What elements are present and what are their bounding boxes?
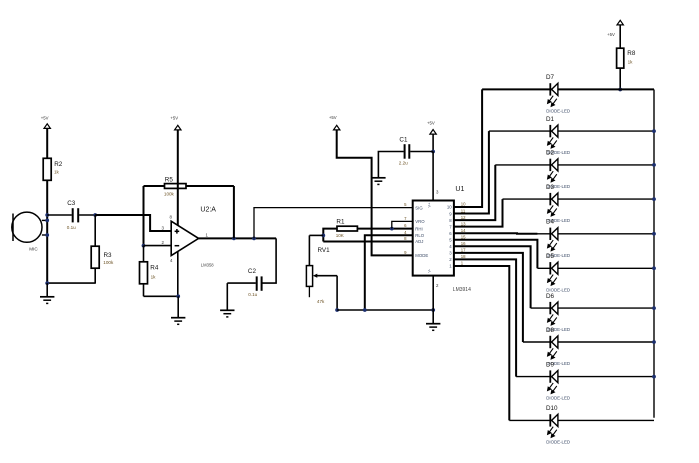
svg-text:DIODE-LED: DIODE-LED xyxy=(546,287,570,292)
wire V+ to chip xyxy=(432,152,434,201)
wire LED row D9 xyxy=(516,376,654,378)
wire pin 15 to LED row 6 xyxy=(454,240,538,269)
wire feedback left vertical xyxy=(143,186,145,246)
ground LM3914 xyxy=(426,323,440,325)
svg-text:D5: D5 xyxy=(546,253,555,260)
node VRO/RHI junction xyxy=(390,227,394,231)
node feedback junction xyxy=(232,237,236,241)
wire LED row D2 xyxy=(495,164,654,166)
LED D8 xyxy=(552,336,558,348)
wire R1 left lead xyxy=(323,229,337,242)
svg-text:C2: C2 xyxy=(248,268,257,275)
wire output down to C2 xyxy=(263,238,277,283)
capacitor C1 xyxy=(404,144,406,159)
wire pin 11 to LED row 2 xyxy=(454,131,489,213)
wire pin 13 to LED row 4 xyxy=(454,199,503,227)
svg-text:+5V: +5V xyxy=(170,115,178,120)
wire +5V to C1 node xyxy=(432,134,434,151)
svg-text:47k: 47k xyxy=(317,299,325,304)
power +5V for LM3914 V+ xyxy=(430,130,436,135)
node chip ground junction xyxy=(431,308,435,312)
wire LED row D1 xyxy=(489,130,654,132)
wire pin 14 to LED row 5 xyxy=(454,232,538,235)
node signal tap junction xyxy=(252,237,256,241)
svg-text:RLO: RLO xyxy=(415,233,424,238)
wire C3 right lead xyxy=(79,214,95,216)
svg-text:D8: D8 xyxy=(546,327,555,334)
LED D1 xyxy=(552,125,558,137)
ground mic xyxy=(40,296,54,298)
wire pin 10 to LED row 1 xyxy=(454,89,482,207)
op-amp U2:A xyxy=(171,221,198,255)
svg-text:R8: R8 xyxy=(627,50,636,57)
svg-text:11: 11 xyxy=(461,208,466,213)
resistor R1 xyxy=(337,226,357,231)
svg-text:1k: 1k xyxy=(628,60,634,65)
wire LED row D5 xyxy=(537,267,654,269)
svg-text:U2:A: U2:A xyxy=(200,207,216,214)
svg-text:LM358: LM358 xyxy=(201,263,214,268)
node rail junction row 7 xyxy=(652,306,656,310)
svg-text:16: 16 xyxy=(461,241,466,246)
svg-text:2.2u: 2.2u xyxy=(399,160,408,165)
svg-text:1k: 1k xyxy=(151,274,157,279)
power +5V for MODE xyxy=(334,125,340,130)
LED D9 xyxy=(552,371,558,383)
resistor R4 xyxy=(143,246,145,262)
svg-text:C1: C1 xyxy=(399,137,408,144)
wire R3 top lead xyxy=(94,215,96,246)
node ground rail junction xyxy=(45,281,49,285)
wire ground stem xyxy=(46,283,48,297)
node rail junction row 6 xyxy=(652,266,656,270)
svg-text:C3: C3 xyxy=(67,200,76,207)
wire C2 left lead xyxy=(227,282,256,284)
wire RLO to ground rail xyxy=(365,235,413,310)
node rail junction row 4 xyxy=(652,197,656,201)
capacitor C3 xyxy=(72,208,74,222)
svg-text:18: 18 xyxy=(461,254,466,259)
svg-text:MODE: MODE xyxy=(415,253,428,258)
svg-text:SIG: SIG xyxy=(415,205,423,210)
wire +5V to R2 xyxy=(46,128,48,158)
node C1/V+ junction xyxy=(431,150,435,154)
ground op-amp xyxy=(171,317,185,319)
wire C1 left lead to ground xyxy=(378,152,403,178)
svg-text:D10: D10 xyxy=(546,405,558,412)
wire LED row D8 xyxy=(523,341,654,343)
svg-text:10: 10 xyxy=(461,202,466,207)
svg-text:17: 17 xyxy=(461,248,466,253)
node C3/R2/mic junction xyxy=(45,213,49,217)
svg-text:+5V: +5V xyxy=(607,32,615,37)
svg-text:0.1u: 0.1u xyxy=(67,225,76,230)
wire +5V to R8 xyxy=(619,25,621,48)
wire pin 16 to LED row 7 xyxy=(454,246,531,308)
node op-amp ground junction xyxy=(176,294,180,298)
svg-text:15: 15 xyxy=(461,234,466,239)
LED D10 xyxy=(552,414,558,426)
wire R5 right lead xyxy=(186,185,234,187)
wire pin 17 to LED row 8 xyxy=(454,253,523,342)
svg-text:RHI: RHI xyxy=(415,226,422,231)
svg-text:12: 12 xyxy=(461,215,466,220)
resistor R2 xyxy=(43,158,51,180)
node inverting input junction xyxy=(142,244,146,248)
IC U1 LM3914 body xyxy=(413,201,454,276)
LED D3 xyxy=(552,193,558,205)
svg-text:D4: D4 xyxy=(546,219,555,226)
svg-text:DIODE-LED: DIODE-LED xyxy=(546,439,570,444)
wire LED row D6 xyxy=(531,307,654,309)
svg-text:DIODE-LED: DIODE-LED xyxy=(546,108,570,113)
ground C2 xyxy=(220,309,234,311)
wire RV1 wiper down xyxy=(336,276,338,310)
wire pin 12 to LED row 3 xyxy=(454,165,495,220)
wire chip ground stem xyxy=(432,310,434,324)
svg-text:100k: 100k xyxy=(164,191,175,196)
node rail junction row 9 xyxy=(652,375,656,379)
wire R3 bottom lead xyxy=(94,268,96,283)
wire R5 left lead xyxy=(144,185,165,187)
svg-text:D1: D1 xyxy=(546,116,555,123)
svg-text:100k: 100k xyxy=(103,260,114,265)
svg-text:D2: D2 xyxy=(546,150,555,157)
svg-text:ADJ: ADJ xyxy=(415,239,423,244)
wire LED row D4 xyxy=(517,233,654,235)
wire bottom ground rail xyxy=(337,309,433,311)
svg-text:R2: R2 xyxy=(54,161,63,168)
svg-text:+5V: +5V xyxy=(41,116,49,121)
svg-text:LM3914: LM3914 xyxy=(453,287,471,293)
svg-text:D3: D3 xyxy=(546,184,555,191)
svg-text:V-: V- xyxy=(427,268,432,272)
power +5V for R8 xyxy=(617,20,623,25)
wire ground stem op-amp xyxy=(177,296,179,317)
wire R1 right to RHI xyxy=(357,228,412,230)
node C3/R3 junction xyxy=(93,213,97,217)
svg-text:R3: R3 xyxy=(104,252,113,259)
wire signal to op-amp xyxy=(95,215,171,231)
node wiper/rail junction xyxy=(335,308,339,312)
wire right anode rail xyxy=(653,90,655,418)
svg-text:0.1u: 0.1u xyxy=(248,292,257,297)
svg-text:D6: D6 xyxy=(546,293,555,300)
wire VRO jog xyxy=(392,221,413,228)
svg-text:+5V: +5V xyxy=(427,121,435,126)
svg-text:D9: D9 xyxy=(546,361,555,368)
wire R2 to mic/C3 node xyxy=(46,180,48,283)
LED D2 xyxy=(552,159,558,171)
microphone MIC xyxy=(12,212,42,242)
wire signal to LM3914 SIG xyxy=(254,208,413,239)
wire LED row D7 xyxy=(482,88,654,90)
node mic pin2 xyxy=(45,233,49,237)
wire pin 1 to LED row 10 xyxy=(454,266,509,420)
LED D7 xyxy=(552,83,558,95)
svg-text:D7: D7 xyxy=(546,74,555,81)
resistor R3 xyxy=(91,246,99,268)
svg-text:U1: U1 xyxy=(455,186,464,193)
svg-text:R5: R5 xyxy=(165,177,174,184)
power +5V for R2 xyxy=(44,124,50,129)
wire ADJ to chip xyxy=(323,241,412,243)
ground C1 xyxy=(371,177,385,179)
wire op-amp pin4 to ground xyxy=(177,251,179,296)
wire op-amp pin2 xyxy=(144,245,172,247)
svg-text:14: 14 xyxy=(461,228,466,233)
resistor R8 xyxy=(617,48,624,68)
node rail junction row 2 xyxy=(652,129,656,133)
LED D6 xyxy=(552,302,558,314)
node R1/RV1/ADJ junction xyxy=(321,234,325,238)
resistor R5 xyxy=(165,184,187,189)
wire op-amp output xyxy=(199,237,277,239)
node rail junction row 5 xyxy=(652,232,656,236)
svg-text:+5V: +5V xyxy=(329,115,337,120)
svg-text:MIC: MIC xyxy=(29,247,38,252)
LED D4 xyxy=(552,228,558,240)
svg-text:V+: V+ xyxy=(427,202,432,208)
wire chip V- xyxy=(432,276,434,310)
svg-text:R4: R4 xyxy=(150,265,159,272)
node R8/rail junction xyxy=(618,88,622,92)
svg-text:R1: R1 xyxy=(336,218,345,225)
wire C3 left lead xyxy=(47,214,72,216)
capacitor C2 xyxy=(256,276,258,290)
wire feedback right vertical xyxy=(233,186,235,238)
LED D5 xyxy=(552,262,558,274)
wire pin 18 to LED row 9 xyxy=(454,259,516,376)
wire R8 to anode rail xyxy=(619,68,621,89)
wire LED row D3 xyxy=(503,198,655,200)
node rail junction row 8 xyxy=(652,340,656,344)
svg-text:1k: 1k xyxy=(54,170,60,175)
svg-text:RV1: RV1 xyxy=(318,247,331,254)
svg-text:VRO: VRO xyxy=(415,219,425,224)
wire ground rail mic xyxy=(47,282,96,284)
svg-text:10K: 10K xyxy=(336,233,345,238)
potentiometer RV1 xyxy=(308,235,310,265)
svg-text:DIODE-LED: DIODE-LED xyxy=(546,396,570,401)
node RLO/rail junction xyxy=(363,308,367,312)
wire +5V to MODE pin xyxy=(337,130,413,256)
svg-text:13: 13 xyxy=(461,221,466,226)
wire node to RV1 top xyxy=(309,234,323,236)
wire +5V to op-amp pin8 xyxy=(177,130,179,226)
wire LED row D10 xyxy=(509,419,654,421)
node rail junction row 3 xyxy=(652,163,656,167)
power +5V for op-amp xyxy=(175,125,181,130)
wire C1 right lead xyxy=(410,151,433,153)
wire R4 bottom to ground rail xyxy=(143,284,145,297)
svg-text:10: 10 xyxy=(447,205,452,210)
